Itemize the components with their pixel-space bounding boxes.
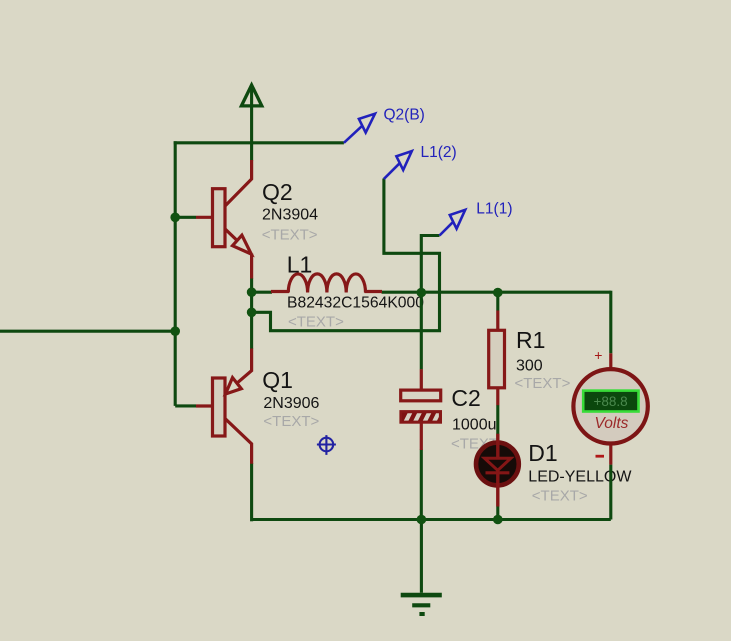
svg-text:Volts: Volts [595,415,629,432]
svg-text:D1: D1 [528,440,557,466]
svg-text:<TEXT>: <TEXT> [532,487,588,504]
svg-text:C2: C2 [451,385,480,411]
svg-text:<TEXT>: <TEXT> [288,314,344,331]
svg-text:B82432C1564K000: B82432C1564K000 [287,294,424,311]
svg-text:Q2: Q2 [262,179,293,205]
svg-text:<TEXT>: <TEXT> [515,375,571,392]
svg-text:L1(1): L1(1) [476,201,512,218]
svg-text:1000u: 1000u [452,416,497,433]
svg-text:+: + [594,347,602,363]
svg-text:R1: R1 [516,327,545,353]
svg-text:<TEXT>: <TEXT> [263,413,319,430]
svg-text:Q2(B): Q2(B) [384,106,425,123]
svg-text:+88.8: +88.8 [594,394,628,409]
svg-text:300: 300 [516,358,543,375]
svg-text:<TEXT>: <TEXT> [262,226,318,243]
svg-text:L1(2): L1(2) [421,144,457,161]
svg-text:Q1: Q1 [262,367,293,393]
svg-text:2N3906: 2N3906 [263,395,319,412]
svg-text:LED-YELLOW: LED-YELLOW [528,469,632,486]
svg-text:2N3904: 2N3904 [262,207,318,224]
